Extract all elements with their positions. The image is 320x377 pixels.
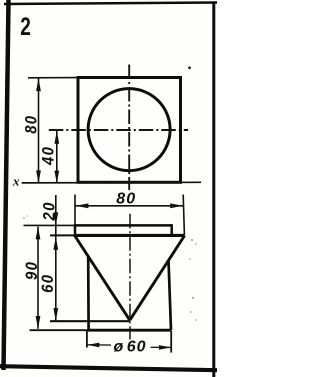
svg-text:2: 2 [20, 12, 31, 40]
svg-text:x: x [12, 173, 20, 188]
svg-text:20: 20 [41, 201, 59, 221]
svg-text:60: 60 [39, 274, 57, 293]
svg-text:80: 80 [23, 115, 41, 134]
svg-text:ø60: ø60 [114, 339, 147, 356]
svg-text:40: 40 [40, 146, 58, 166]
svg-text:80: 80 [116, 191, 136, 208]
